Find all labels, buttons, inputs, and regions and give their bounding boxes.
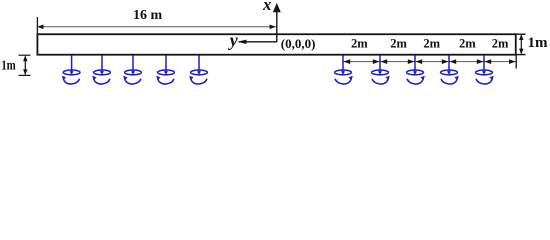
svg-text:x: x xyxy=(262,0,272,14)
svg-text:2m: 2m xyxy=(459,37,476,51)
beam outline xyxy=(37,34,515,54)
right 2m dimension line xyxy=(343,61,516,63)
torsional spring 1 (left group) xyxy=(62,55,80,84)
dimension 16 m line xyxy=(37,25,276,30)
svg-text:1m: 1m xyxy=(1,59,16,74)
dimension arrowheads at ticks xyxy=(344,59,516,64)
torsional spring 9 (right group) xyxy=(441,55,459,84)
right dimension end tick (beam right edge extended) xyxy=(515,55,517,69)
torsional spring 2 (left group) xyxy=(92,55,110,84)
torsional spring 6 (right group) xyxy=(335,55,353,84)
dimension 1m (left) extension bar bottom xyxy=(19,74,31,76)
dimension 1m (right) double arrow xyxy=(519,34,523,55)
torsional spring 10 (right group) xyxy=(476,55,494,84)
torsional spring 5 (left group) xyxy=(189,55,207,84)
svg-text:y: y xyxy=(228,30,239,50)
svg-text:16 m: 16 m xyxy=(133,8,163,23)
x axis arrow xyxy=(273,3,281,42)
torsional spring 4 (left group) xyxy=(156,55,174,84)
svg-text:1m: 1m xyxy=(528,35,549,51)
torsional spring 7 (right group) xyxy=(372,55,390,84)
torsional spring 8 (right group) xyxy=(407,55,425,84)
beam bottom edge extension (right, for 1m dim) xyxy=(516,54,526,56)
beam top edge extension (right, for 1m dim) xyxy=(516,33,526,35)
dimension 1m (left) extension bar top xyxy=(19,54,31,56)
svg-text:(0,0,0): (0,0,0) xyxy=(281,36,316,51)
svg-text:2m: 2m xyxy=(423,37,440,51)
extension line above beam left edge xyxy=(36,17,38,34)
svg-text:2m: 2m xyxy=(351,37,368,51)
svg-text:2m: 2m xyxy=(390,37,407,51)
y axis arrow xyxy=(237,40,276,44)
dimension 1m (left) double arrow xyxy=(23,55,27,75)
torsional spring 3 (left group) xyxy=(123,55,141,84)
svg-text:2m: 2m xyxy=(492,37,509,51)
